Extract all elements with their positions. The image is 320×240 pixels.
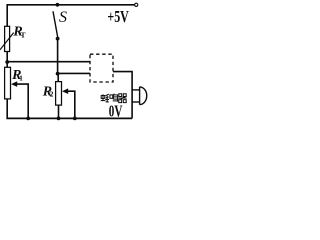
R1 wiper arrowhead — [11, 81, 17, 87]
dashed box (control module) — [90, 54, 113, 82]
wire R2 bottom lead — [58, 105, 60, 118]
wire bottom rail — [6, 117, 132, 119]
thermistor RT diagonal — [0, 33, 14, 50]
buzzer dome arc — [140, 87, 147, 105]
wire middle rail to dashed box — [7, 61, 90, 63]
resistor R1 body — [5, 67, 11, 99]
buzzer lead stub bottom — [132, 101, 140, 103]
wire switch down crossing middle rail — [57, 39, 59, 74]
svg-text:1: 1 — [19, 73, 23, 82]
char ming 鸣 — [110, 95, 113, 98]
char feng 蜂 — [102, 94, 104, 100]
switch S blade — [53, 11, 58, 38]
terminal +5V open circle — [135, 3, 138, 6]
svg-text:T: T — [21, 30, 26, 39]
resistor R2 body — [56, 82, 62, 106]
buzzer lead stub top — [132, 89, 140, 91]
label 蜂鸣器 (drawn strokes) — [101, 94, 127, 103]
wire dashed box to buzzer — [113, 72, 132, 119]
wire R1 wiper — [17, 84, 29, 118]
wire node A down to R1 — [6, 62, 8, 67]
buzzer flat side — [139, 87, 141, 105]
wire top rail — [7, 4, 134, 6]
wire R1 bottom lead — [6, 99, 8, 119]
svg-text:+5V: +5V — [107, 7, 129, 26]
svg-text:2: 2 — [50, 90, 54, 99]
thermistor RT body — [5, 26, 10, 51]
node A junction dot — [5, 60, 9, 64]
wire R2 wiper — [68, 91, 75, 117]
R2 wiper arrowhead — [62, 88, 68, 94]
junction dot R2 wiper to bottom rail — [73, 117, 77, 121]
wire left rail upper — [6, 4, 8, 26]
switch S top junction dot — [56, 3, 60, 7]
junction dot R2 lead to bottom rail — [57, 117, 61, 121]
char qi 器 — [119, 94, 122, 97]
switch S bottom terminal dot — [56, 37, 60, 41]
svg-text:0V: 0V — [109, 101, 123, 120]
junction dot R1 wiper to bottom rail — [26, 117, 30, 121]
wire node B to dashed box — [58, 72, 90, 74]
node B junction dot — [56, 72, 60, 76]
svg-text:S: S — [59, 9, 67, 26]
wire node B down to R2 — [57, 74, 59, 82]
wire thermistor to node A — [6, 52, 8, 63]
